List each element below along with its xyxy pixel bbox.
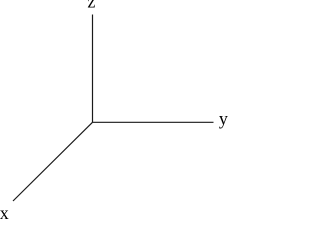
svg-text:x: x <box>0 203 9 219</box>
svg-text:z: z <box>87 0 95 12</box>
svg-text:y: y <box>219 109 228 129</box>
